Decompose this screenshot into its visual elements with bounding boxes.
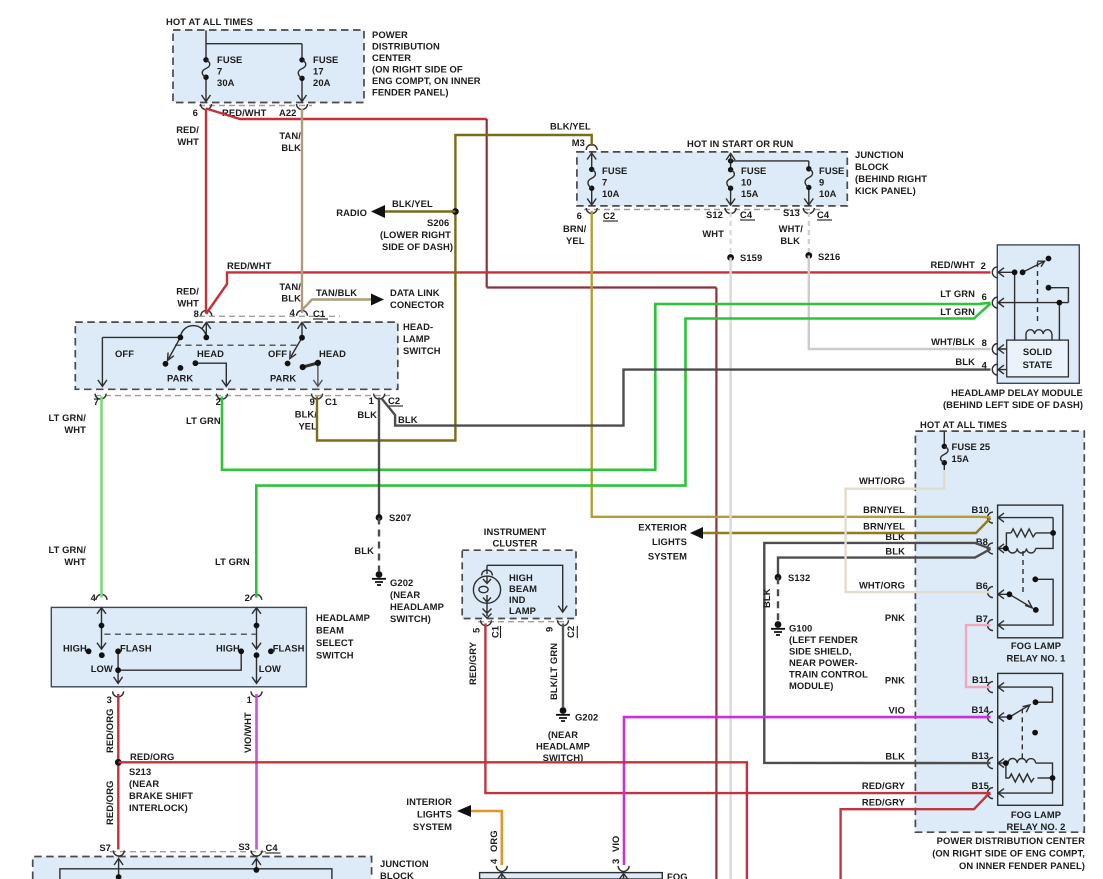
svg-text:LT GRN: LT GRN (215, 556, 250, 567)
svg-text:HOT AT ALL TIMES: HOT AT ALL TIMES (166, 16, 253, 27)
svg-text:LT GRN/: LT GRN/ (49, 544, 87, 555)
svg-text:(NEAR: (NEAR (129, 778, 159, 789)
wire WHT/ORG fuse25 to B6 (846, 470, 991, 592)
wire BLK dashed S132 to G100 (777, 577, 779, 621)
connector row gray dashed below switch (95, 395, 390, 397)
wire WHT/BLK S216 down and to module pin 8 (809, 256, 991, 350)
svg-text:B7: B7 (976, 613, 988, 624)
svg-text:MODULE): MODULE) (789, 680, 833, 691)
wire WHT S159 to bottom (729, 258, 731, 879)
wire RED/GRY cluster pin5 down right to B15 (485, 624, 990, 794)
svg-text:9: 9 (544, 627, 555, 632)
svg-text:BRN/YEL: BRN/YEL (863, 521, 905, 532)
cluster pin 5 C1 bump (481, 620, 492, 626)
svg-text:C4: C4 (266, 842, 279, 853)
fog pin 4 bump (496, 866, 507, 872)
module pin 2 bump (992, 267, 998, 278)
fuse F9 10A (805, 165, 844, 199)
wire RED/WHT branch diagonal to horizontal y119 (206, 109, 487, 120)
svg-text:FLASH: FLASH (120, 643, 152, 654)
svg-text:HIGH: HIGH (509, 572, 533, 583)
svg-text:SYSTEM: SYSTEM (648, 551, 687, 562)
svg-text:BLK: BLK (354, 545, 374, 556)
module pin 8 bump (992, 344, 997, 355)
svg-text:OFF: OFF (268, 348, 287, 359)
svg-text:BLK/LT GRN: BLK/LT GRN (548, 643, 559, 700)
svg-text:WHT: WHT (177, 136, 199, 147)
svg-text:VIO/WHT: VIO/WHT (242, 712, 253, 753)
arrow down fuse9 to S13 (804, 198, 813, 205)
mechanical link dashed (175, 344, 297, 346)
svg-text:7: 7 (94, 396, 99, 407)
svg-text:WHT: WHT (702, 228, 724, 239)
label S213 (NEAR BRAKE SHIFT INTERLOCK) (129, 766, 193, 813)
svg-text:B11: B11 (972, 674, 989, 685)
power distribution center box (173, 30, 364, 103)
svg-text:2: 2 (981, 260, 986, 271)
arrow down fuse17 to pin A22 (298, 95, 307, 102)
wire WHT dashed S12 to S159 (729, 212, 731, 258)
svg-text:POWER: POWER (372, 29, 408, 40)
svg-text:S216: S216 (818, 251, 840, 262)
beam switch left mechanism (97, 608, 241, 684)
svg-text:S3: S3 (238, 841, 250, 852)
svg-text:B6: B6 (976, 580, 988, 591)
svg-text:BLK: BLK (281, 142, 301, 153)
junction block box (577, 152, 847, 206)
connector row gray dashed bottom JB (110, 851, 270, 853)
svg-text:TAN/: TAN/ (279, 130, 301, 141)
high beam ind lamp symbol (473, 565, 567, 618)
arrow exterior lights system (690, 527, 703, 539)
svg-text:RED/GRY: RED/GRY (467, 641, 478, 685)
svg-text:HEADLAMP: HEADLAMP (316, 612, 370, 623)
svg-text:C1: C1 (313, 308, 325, 319)
svg-text:SWITCH: SWITCH (316, 650, 354, 661)
pin 8 dome bump (201, 310, 212, 316)
svg-text:20A: 20A (313, 77, 331, 88)
svg-text:BLK: BLK (955, 356, 975, 367)
svg-text:RELAY NO. 1: RELAY NO. 1 (1007, 653, 1066, 664)
svg-text:RED/ORG: RED/ORG (104, 709, 115, 753)
svg-text:C4: C4 (740, 209, 753, 220)
svg-text:HEAD: HEAD (319, 348, 346, 359)
svg-text:BLK: BLK (398, 414, 418, 425)
svg-text:WHT: WHT (64, 556, 86, 567)
svg-text:9: 9 (819, 177, 824, 188)
svg-text:WHT: WHT (177, 298, 199, 309)
relay1 pin B6 bump (988, 587, 994, 598)
svg-text:S159: S159 (740, 252, 762, 263)
wire BLK B8 lower branch to S132 (778, 549, 991, 577)
svg-text:JUNCTION: JUNCTION (855, 149, 904, 160)
junction dot S206 (452, 208, 459, 215)
svg-text:BLK: BLK (885, 751, 905, 762)
svg-text:CENTER: CENTER (372, 52, 411, 63)
fuse F10 15A with top bus (726, 154, 809, 200)
relay2 internals (998, 683, 1053, 798)
svg-text:S206: S206 (427, 217, 449, 228)
svg-text:INTERIOR: INTERIOR (406, 796, 452, 807)
pin 1 C2 bump (374, 394, 385, 400)
svg-text:C2: C2 (388, 395, 400, 406)
svg-text:ENG COMPT, ON INNER: ENG COMPT, ON INNER (372, 75, 481, 86)
pin 7 bump (95, 394, 106, 400)
fuse F25 15A (941, 432, 991, 471)
svg-text:10A: 10A (602, 188, 620, 199)
headlamp delay module box (997, 245, 1079, 383)
relay1 pin B10 bump (988, 512, 994, 523)
svg-text:HIGH: HIGH (216, 643, 240, 654)
arrow down fuse10 to S12 (726, 198, 735, 205)
svg-text:10: 10 (741, 177, 752, 188)
fuse F7 30A (202, 54, 242, 88)
fog internal arrows (497, 874, 628, 879)
pin 2 dome bump (251, 594, 262, 600)
svg-text:LIGHTS: LIGHTS (417, 809, 452, 820)
svg-text:G202: G202 (390, 577, 413, 588)
PDC title text (372, 29, 481, 98)
connector row gray dashed above switch (199, 315, 340, 317)
wire BLK dashed S207 to G202 (378, 518, 380, 572)
svg-text:7: 7 (602, 177, 607, 188)
svg-text:BRN/YEL: BRN/YEL (863, 504, 905, 515)
svg-text:PNK: PNK (885, 612, 905, 623)
beam select switch box (51, 607, 306, 686)
svg-text:VIO: VIO (610, 836, 621, 852)
junction dot S213 (115, 759, 122, 766)
svg-text:BRAKE SHIFT: BRAKE SHIFT (129, 790, 193, 801)
relay2 pin B11 bump (988, 682, 994, 693)
svg-text:LOW: LOW (91, 663, 113, 674)
svg-text:RED/ORG: RED/ORG (130, 751, 174, 762)
svg-text:S132: S132 (788, 572, 810, 583)
svg-text:4: 4 (488, 858, 499, 864)
svg-text:WHT: WHT (64, 424, 86, 435)
svg-text:BLK: BLK (780, 235, 800, 246)
right switch mechanism (290, 322, 323, 386)
svg-text:RED/WHT: RED/WHT (931, 259, 976, 270)
wire WHT/BLK dashed S13 to S216 (808, 212, 810, 256)
relay1 pin B8 bump (988, 543, 994, 554)
svg-text:BLK: BLK (357, 409, 377, 420)
svg-text:A22: A22 (279, 107, 297, 118)
svg-text:TAN/: TAN/ (279, 281, 301, 292)
label INTERIOR LIGHTS SYSTEM (406, 796, 452, 832)
svg-text:LAMP: LAMP (403, 333, 430, 344)
svg-text:RED/: RED/ (176, 286, 199, 297)
svg-text:C4: C4 (817, 209, 830, 220)
svg-text:WHT/BLK: WHT/BLK (931, 336, 975, 347)
headlamp switch title (403, 321, 441, 356)
svg-text:(NEAR: (NEAR (390, 589, 420, 600)
svg-text:LIGHTS: LIGHTS (652, 536, 687, 547)
pin A22 bump (297, 104, 308, 110)
wire BRN/YEL exterior lights branch (694, 518, 991, 533)
svg-text:BEAM: BEAM (509, 583, 537, 594)
pin 3 bump (113, 691, 124, 697)
junction dot S132 (775, 574, 782, 581)
svg-text:WHT/ORG: WHT/ORG (859, 580, 905, 591)
svg-text:BLK/: BLK/ (295, 409, 318, 420)
solid state box (1007, 340, 1069, 377)
svg-text:G202: G202 (575, 712, 598, 723)
beam switch right mechanism (252, 608, 261, 684)
pin 1 bump (251, 691, 262, 697)
svg-text:FOG LAMP: FOG LAMP (1011, 640, 1061, 651)
left switch mechanism (98, 322, 231, 386)
svg-text:S12: S12 (706, 209, 723, 220)
svg-text:DISTRIBUTION: DISTRIBUTION (372, 41, 440, 52)
junction dot S216 (805, 252, 812, 259)
ground G100 (771, 621, 868, 691)
svg-text:4: 4 (91, 592, 97, 603)
svg-text:CONECTOR: CONECTOR (390, 299, 444, 310)
svg-text:HEAD: HEAD (197, 348, 224, 359)
svg-text:STATE: STATE (1023, 359, 1053, 370)
svg-text:OFF: OFF (115, 348, 134, 359)
svg-text:C1: C1 (325, 396, 337, 407)
svg-text:4: 4 (290, 307, 296, 318)
svg-text:TRAIN CONTROL: TRAIN CONTROL (789, 669, 868, 680)
relay2 pin B14 bump (988, 712, 994, 723)
svg-text:FUSE 25: FUSE 25 (952, 441, 991, 452)
wire BLK/LT GRN cluster pin9 down to G202 (562, 624, 564, 708)
svg-text:(ON RIGHT SIDE OF: (ON RIGHT SIDE OF (372, 64, 463, 75)
junction block bottom inner box (60, 869, 332, 879)
svg-text:VIO: VIO (889, 705, 905, 716)
svg-text:2: 2 (216, 396, 221, 407)
svg-text:BLK: BLK (761, 588, 772, 608)
svg-text:6: 6 (577, 210, 582, 221)
fog pin 3 bump (618, 866, 629, 872)
pin S13 C4 bump (803, 208, 814, 214)
svg-text:C2: C2 (603, 210, 615, 221)
arrow down fuse7 to pin 6 (202, 95, 211, 102)
svg-text:WHT/: WHT/ (779, 223, 804, 234)
connector row gray dashed under PDC (199, 105, 312, 107)
pin 9 C1 bump (312, 394, 323, 400)
pin 6 bump (201, 104, 212, 110)
svg-text:RED/ORG: RED/ORG (104, 781, 115, 825)
svg-text:EXTERIOR: EXTERIOR (638, 522, 687, 533)
cluster connector gray dashed (478, 621, 568, 623)
svg-text:(LEFT FENDER: (LEFT FENDER (789, 634, 858, 645)
svg-text:HIGH: HIGH (63, 643, 87, 654)
svg-text:BLK: BLK (281, 293, 301, 304)
ground G202 right (536, 707, 598, 763)
junction block title (855, 149, 927, 196)
svg-text:15A: 15A (741, 188, 759, 199)
wire BLK/YEL headlamp pin9 down right and up to S206 M3 (317, 135, 592, 441)
svg-text:PARK: PARK (167, 373, 193, 384)
wire RED/GRY second from B15 down left to bottom (841, 794, 991, 879)
wire RED horizontal y287.5 (487, 286, 717, 288)
relay1 pin B7 bump (988, 620, 994, 631)
svg-text:BRN/: BRN/ (563, 223, 587, 234)
svg-text:B10: B10 (972, 504, 990, 515)
svg-text:2: 2 (245, 592, 250, 603)
pin M3 dome bump (586, 145, 597, 151)
svg-text:HOT IN START OR RUN: HOT IN START OR RUN (687, 138, 794, 149)
svg-text:RED/WHT: RED/WHT (227, 260, 272, 271)
svg-text:KICK PANEL): KICK PANEL) (855, 185, 916, 196)
pin S12 C4 bump (725, 208, 736, 214)
svg-text:6: 6 (982, 291, 987, 302)
svg-text:S207: S207 (389, 512, 411, 523)
wire RED vertical x486.7 (486, 119, 488, 288)
svg-text:NEAR POWER-: NEAR POWER- (789, 657, 858, 668)
svg-text:BLK: BLK (885, 546, 905, 557)
svg-text:LOW: LOW (259, 663, 281, 674)
instrument cluster box (462, 550, 576, 618)
svg-text:15A: 15A (952, 453, 970, 464)
arrow up into M3 (587, 153, 596, 162)
svg-text:FUSE: FUSE (819, 165, 844, 176)
svg-text:HEADLAMP: HEADLAMP (536, 741, 590, 752)
svg-text:FUSE: FUSE (602, 165, 627, 176)
svg-text:PARK: PARK (270, 373, 296, 384)
svg-text:M3: M3 (572, 137, 585, 148)
module switch dots (1012, 269, 1018, 275)
PDC bottom right box (915, 431, 1084, 832)
module pin 6 bump (992, 297, 998, 308)
relay1 internals (998, 513, 1053, 630)
svg-text:17: 17 (313, 66, 324, 77)
svg-text:3: 3 (610, 859, 621, 864)
svg-text:B14: B14 (972, 704, 990, 715)
svg-text:PNK: PNK (885, 675, 905, 686)
wire BLK B8 upper branch to B13 (764, 543, 990, 763)
svg-text:ORG: ORG (488, 830, 499, 852)
svg-text:FENDER PANEL): FENDER PANEL) (372, 87, 449, 98)
wire RED/WHT fuse7 pin6 down to headlamp switch pin 8 (205, 109, 207, 314)
junction block bottom box (33, 857, 372, 879)
svg-text:INSTRUMENT: INSTRUMENT (484, 526, 547, 537)
wire BLK/YEL branch to radio (385, 210, 455, 212)
svg-text:HEADLAMP DELAY MODULE: HEADLAMP DELAY MODULE (951, 387, 1083, 398)
wire PNK B7 to B11 (966, 625, 991, 687)
svg-text:8: 8 (194, 308, 199, 319)
wire LT GRN headlamp pin2 down right up to module pin 6 (222, 303, 991, 470)
svg-text:FLASH: FLASH (273, 643, 305, 654)
svg-text:(LOWER RIGHT: (LOWER RIGHT (380, 229, 451, 240)
svg-text:SWITCH: SWITCH (403, 345, 441, 356)
svg-text:5: 5 (471, 628, 482, 633)
fog lamp relay no 1 box (998, 505, 1063, 638)
label S206 (LOWER RIGHT SIDE OF DASH) (380, 217, 453, 252)
relay2 pin B15 bump (988, 788, 994, 799)
svg-text:FOG LAMP: FOG LAMP (1011, 809, 1061, 820)
wire VIO/WHT beam pin1 to S3 (255, 694, 258, 850)
arrow data link conector (371, 294, 384, 306)
pin 4 C1 dome bump (297, 310, 308, 316)
svg-text:10A: 10A (819, 188, 837, 199)
PDC bottom right footer title (932, 835, 1085, 871)
svg-text:SOLID: SOLID (1023, 346, 1052, 357)
fuse F7jb 10A (588, 162, 627, 199)
svg-text:9: 9 (310, 396, 315, 407)
svg-text:IND: IND (509, 594, 526, 605)
headlamp switch box (75, 322, 398, 389)
pin S7 bump (113, 851, 124, 857)
fog box (480, 873, 663, 879)
svg-text:3: 3 (107, 694, 112, 705)
fog lamp relay no 2 box (998, 673, 1063, 805)
junction dot S207 (376, 514, 383, 521)
svg-text:YEL: YEL (298, 421, 317, 432)
wire BRN/YEL junction pin6 C2 down to B10 (592, 211, 991, 517)
svg-text:RED/: RED/ (176, 124, 199, 135)
svg-text:WHT/ORG: WHT/ORG (859, 475, 905, 486)
svg-text:B13: B13 (972, 750, 990, 761)
svg-text:LT GRN: LT GRN (940, 306, 975, 317)
svg-text:FUSE: FUSE (741, 165, 766, 176)
svg-text:S7: S7 (99, 842, 111, 853)
connector row gray dashed under junction block (584, 209, 820, 211)
svg-text:HEAD-: HEAD- (403, 321, 433, 332)
svg-text:BLOCK: BLOCK (855, 161, 889, 172)
svg-text:B15: B15 (972, 780, 990, 791)
svg-text:8: 8 (982, 337, 987, 348)
JB bottom internal arrows (114, 859, 261, 879)
svg-text:RED/GRY: RED/GRY (862, 780, 906, 791)
svg-text:BEAM: BEAM (316, 625, 344, 636)
fuse F17 20A (298, 54, 338, 88)
svg-text:BLOCK: BLOCK (380, 870, 414, 879)
svg-text:CLUSTER: CLUSTER (493, 538, 538, 549)
cluster pin 9 C2 bump (558, 620, 569, 626)
lamp text HIGH BEAM IND LAMP (509, 572, 537, 616)
beam switch title (316, 612, 370, 661)
svg-text:BLK/YEL: BLK/YEL (392, 198, 433, 209)
beam switch position labels (63, 643, 305, 675)
svg-text:RADIO: RADIO (336, 207, 367, 218)
wire internal PDC bus (206, 31, 302, 96)
wire TAN/BLK branch to data link connector (302, 300, 371, 311)
junction dot S159 (727, 254, 734, 261)
svg-text:HOT AT ALL TIMES: HOT AT ALL TIMES (920, 419, 1007, 430)
svg-text:FUSE: FUSE (217, 54, 242, 65)
svg-text:1: 1 (369, 395, 374, 406)
ground G202 left (372, 571, 444, 624)
svg-text:HEADLAMP: HEADLAMP (390, 601, 444, 612)
wire ORG interior lights to fog pin 4 (471, 811, 502, 865)
arrow down fuse7jb to pin 6 C2 (587, 198, 596, 205)
label EXTERIOR LIGHTS SYSTEM (638, 522, 687, 562)
svg-text:(ON RIGHT SIDE OF ENG COMPT,: (ON RIGHT SIDE OF ENG COMPT, (932, 848, 1085, 859)
svg-text:SIDE SHIELD,: SIDE SHIELD, (789, 646, 852, 657)
svg-text:LT GRN/: LT GRN/ (49, 412, 87, 423)
svg-text:(BEHIND RIGHT: (BEHIND RIGHT (855, 173, 927, 184)
svg-text:FOG: FOG (667, 871, 688, 879)
svg-text:TAN/BLK: TAN/BLK (316, 287, 357, 298)
wire TAN/BLK A22 down to pin 4 C1 (301, 109, 303, 314)
svg-text:JUNCTION: JUNCTION (380, 858, 429, 869)
pin S3 C4 bump (251, 851, 262, 857)
wire RED/WHT pin8 diagonal up to y272.4 run to module pin 2 (206, 272, 991, 314)
svg-text:SYSTEM: SYSTEM (413, 821, 452, 832)
module internal switch and wiring (998, 261, 1068, 374)
wire RED/ORG beam pin3 to S7 (117, 694, 119, 850)
pin 6 C2 bump (586, 208, 597, 214)
svg-text:INTERLOCK): INTERLOCK) (129, 802, 188, 813)
svg-text:POWER DISTRIBUTION CENTER: POWER DISTRIBUTION CENTER (937, 835, 1085, 846)
svg-text:C2: C2 (565, 626, 576, 638)
svg-text:ON INNER FENDER PANEL): ON INNER FENDER PANEL) (959, 860, 1085, 871)
svg-text:1: 1 (247, 694, 252, 705)
svg-text:7: 7 (217, 66, 222, 77)
